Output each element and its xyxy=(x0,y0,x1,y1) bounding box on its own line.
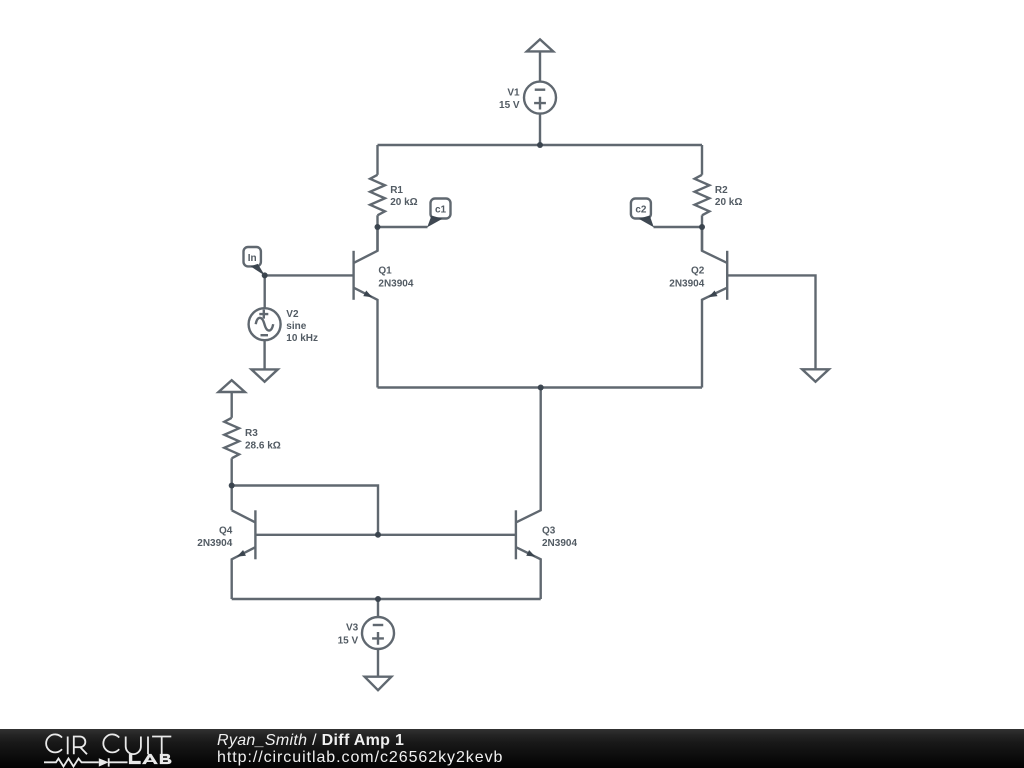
svg-text:20 kΩ: 20 kΩ xyxy=(715,197,742,208)
svg-text:15 V: 15 V xyxy=(338,635,359,646)
svg-text:10 kHz: 10 kHz xyxy=(286,333,318,344)
svg-text:2N3904: 2N3904 xyxy=(542,538,577,549)
svg-text:c2: c2 xyxy=(635,204,647,215)
svg-text:c1: c1 xyxy=(435,204,447,215)
svg-text:2N3904: 2N3904 xyxy=(669,278,704,289)
svg-text:Q3: Q3 xyxy=(542,525,556,536)
svg-text:R2: R2 xyxy=(715,185,728,196)
svg-text:15 V: 15 V xyxy=(499,100,520,111)
svg-text:28.6 kΩ: 28.6 kΩ xyxy=(245,440,281,451)
svg-text:In: In xyxy=(248,253,257,264)
svg-text:2N3904: 2N3904 xyxy=(197,538,232,549)
svg-text:2N3904: 2N3904 xyxy=(378,278,413,289)
svg-text:20 kΩ: 20 kΩ xyxy=(390,197,417,208)
svg-text:sine: sine xyxy=(286,321,306,332)
svg-text:V3: V3 xyxy=(346,623,359,634)
svg-text:Q4: Q4 xyxy=(219,525,233,536)
svg-text:R1: R1 xyxy=(390,185,403,196)
svg-text:Q2: Q2 xyxy=(691,266,705,277)
svg-text:R3: R3 xyxy=(245,428,258,439)
svg-text:V1: V1 xyxy=(507,87,520,98)
svg-text:V2: V2 xyxy=(286,309,299,320)
svg-text:Q1: Q1 xyxy=(378,266,392,277)
